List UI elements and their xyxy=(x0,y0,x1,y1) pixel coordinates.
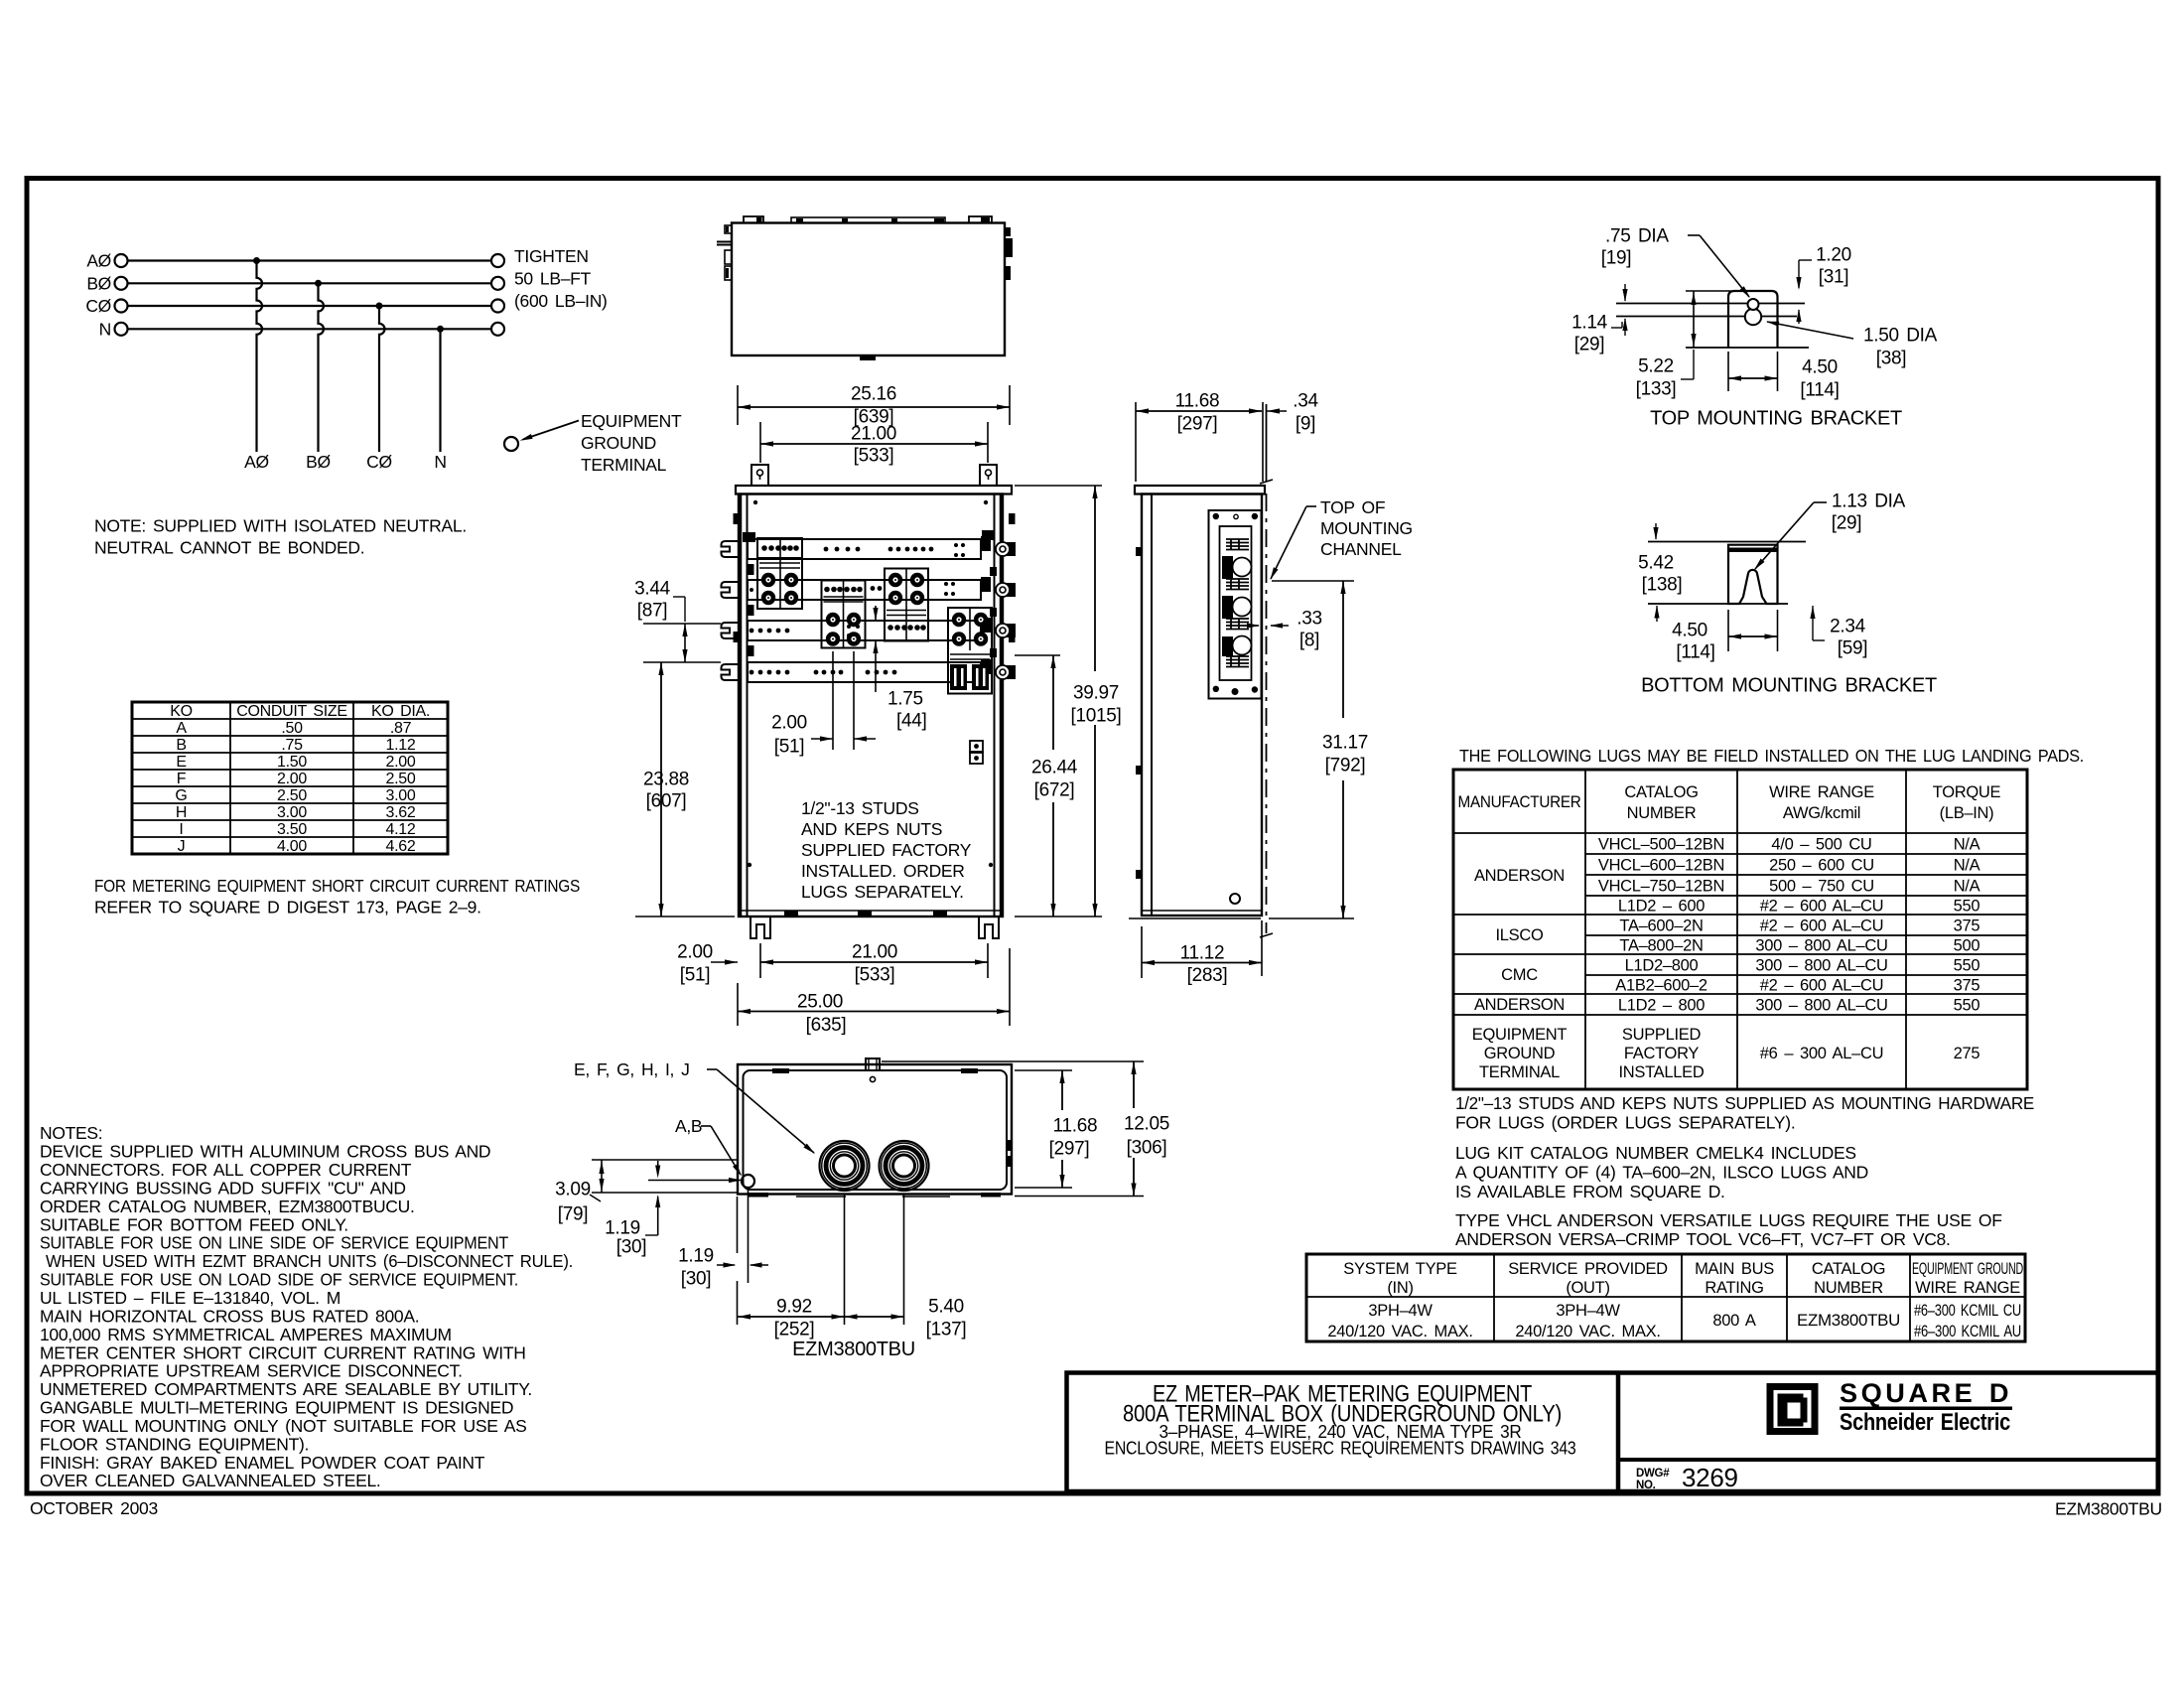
svg-text:ENCLOSURE, MEETS EUSERC REQUIR: ENCLOSURE, MEETS EUSERC REQUIREMENTS DRA… xyxy=(1105,1438,1576,1458)
svg-text:GROUND: GROUND xyxy=(581,433,656,453)
svg-text:IS AVAILABLE FROM SQUARE D.: IS AVAILABLE FROM SQUARE D. xyxy=(1455,1182,1725,1201)
svg-text:N/A: N/A xyxy=(1954,835,1980,853)
dimension 25.16 [639] top width xyxy=(738,384,1010,428)
svg-text:[30]: [30] xyxy=(681,1269,712,1290)
foot left (front view) xyxy=(751,917,770,938)
dimension 5.40 [137] xyxy=(845,1195,967,1340)
dimension 1.19 [30] horizontal xyxy=(678,1189,768,1290)
bracket slot lines xyxy=(1616,304,1809,349)
svg-text:[635]: [635] xyxy=(806,1015,847,1036)
svg-text:(600 LB–IN): (600 LB–IN) xyxy=(514,291,608,311)
svg-text:NEUTRAL CANNOT BE BONDED.: NEUTRAL CANNOT BE BONDED. xyxy=(94,538,364,558)
dimension .75 DIA [19] xyxy=(1601,226,1750,298)
wire C-phase horizontal xyxy=(128,305,492,307)
top view of enclosure xyxy=(717,216,1013,360)
svg-text:[79]: [79] xyxy=(558,1204,589,1225)
svg-text:[283]: [283] xyxy=(1187,965,1228,986)
bottom view enclosure xyxy=(738,1058,1013,1198)
svg-text:NOTES:: NOTES: xyxy=(40,1123,102,1143)
svg-text:300 – 800 AL–CU: 300 – 800 AL–CU xyxy=(1755,996,1887,1014)
svg-text:3.50: 3.50 xyxy=(277,821,307,838)
svg-text:100,000 RMS SYMMETRICAL AMPERE: 100,000 RMS SYMMETRICAL AMPERES MAXIMUM xyxy=(40,1325,452,1344)
bracket reference lines bottom xyxy=(1648,542,1806,605)
svg-text:4.50: 4.50 xyxy=(1672,621,1707,641)
svg-text:11.68: 11.68 xyxy=(1175,391,1220,412)
svg-text:NO.: NO. xyxy=(1636,1480,1656,1491)
svg-text:1.19: 1.19 xyxy=(605,1218,640,1239)
svg-text:WIRE RANGE: WIRE RANGE xyxy=(1769,783,1874,801)
svg-text:ILSCO: ILSCO xyxy=(1495,926,1543,944)
note short circuit ratings xyxy=(94,876,580,917)
dimension 1.14 [29] xyxy=(1571,284,1627,355)
svg-text:NUMBER: NUMBER xyxy=(1814,1279,1883,1297)
svg-text:[87]: [87] xyxy=(637,601,668,622)
svg-text:N: N xyxy=(99,320,111,340)
lug landing pad block top-left xyxy=(757,538,802,609)
svg-text:375: 375 xyxy=(1954,917,1980,934)
dimension .33 [8] xyxy=(1243,609,1322,651)
svg-text:300 – 800 AL–CU: 300 – 800 AL–CU xyxy=(1755,936,1887,954)
svg-text:SYSTEM TYPE: SYSTEM TYPE xyxy=(1343,1260,1457,1278)
svg-text:12.05: 12.05 xyxy=(1124,1114,1169,1135)
svg-text:240/120 VAC. MAX.: 240/120 VAC. MAX. xyxy=(1327,1323,1472,1340)
dimension 39.97 [1015] overall height xyxy=(1015,486,1122,917)
svg-text:(OUT): (OUT) xyxy=(1566,1279,1609,1297)
mounting channel line (side view) xyxy=(1260,404,1273,937)
svg-text:[252]: [252] xyxy=(774,1320,815,1340)
svg-text:CØ: CØ xyxy=(366,452,392,472)
svg-text:TORQUE: TORQUE xyxy=(1933,783,2001,801)
dimension 3.09 [79] xyxy=(555,1160,742,1225)
svg-text:5.42: 5.42 xyxy=(1638,553,1674,574)
svg-text:1.50: 1.50 xyxy=(277,754,307,771)
svg-text:3.09: 3.09 xyxy=(555,1180,591,1200)
svg-text:21.00: 21.00 xyxy=(852,942,897,963)
svg-text:FLOOR STANDING EQUIPMENT).: FLOOR STANDING EQUIPMENT). xyxy=(40,1434,309,1454)
wire N drop xyxy=(439,329,441,452)
svg-text:MOUNTING: MOUNTING xyxy=(1320,518,1413,538)
KO conduit size table xyxy=(132,702,448,855)
svg-text:L1D2 – 600: L1D2 – 600 xyxy=(1618,897,1705,915)
dimension 5.42 [138] xyxy=(1638,523,1682,622)
svg-text:[792]: [792] xyxy=(1325,756,1366,776)
svg-text:11.12: 11.12 xyxy=(1180,943,1225,964)
svg-text:TOP OF: TOP OF xyxy=(1320,497,1385,517)
lug landing pad block middle xyxy=(822,581,866,648)
dimension 9.92 [252] xyxy=(738,1195,845,1340)
dimension 11.12 [283] xyxy=(1129,918,1262,986)
svg-text:REFER TO SQUARE D DIGEST 173,: REFER TO SQUARE D DIGEST 173, PAGE 2–9. xyxy=(94,898,481,917)
svg-text:I: I xyxy=(179,821,183,838)
svg-text:CONNECTORS. FOR ALL COPPER CUR: CONNECTORS. FOR ALL COPPER CURRENT xyxy=(40,1160,412,1180)
svg-text:.87: .87 xyxy=(390,720,412,737)
svg-text:ANDERSON: ANDERSON xyxy=(1474,996,1565,1014)
svg-text:KO DIA.: KO DIA. xyxy=(371,703,430,720)
svg-text:FINISH: GRAY BAKED ENAMEL POWD: FINISH: GRAY BAKED ENAMEL POWDER COAT PA… xyxy=(40,1453,485,1473)
svg-text:[306]: [306] xyxy=(1127,1138,1167,1159)
dimension 12.05 [306] bottom view xyxy=(882,1061,1169,1197)
svg-text:A QUANTITY OF (4) TA–600–2N, I: A QUANTITY OF (4) TA–600–2N, ILSCO LUGS … xyxy=(1455,1163,1868,1183)
svg-text:SUPPLIED: SUPPLIED xyxy=(1622,1026,1702,1044)
knockout A,B (bottom view) xyxy=(742,1175,754,1188)
junction A xyxy=(253,257,260,264)
svg-text:[297]: [297] xyxy=(1049,1139,1090,1160)
meter socket panel (side view) xyxy=(1209,510,1262,699)
svg-text:3269: 3269 xyxy=(1682,1463,1738,1492)
svg-text:TERMINAL: TERMINAL xyxy=(581,455,667,475)
svg-text:L1D2–800: L1D2–800 xyxy=(1625,956,1699,974)
notes block xyxy=(40,1123,573,1490)
svg-text:INSTALLED: INSTALLED xyxy=(1619,1063,1705,1081)
dimension 3.44 [87] row spacing xyxy=(634,579,721,662)
svg-text:375: 375 xyxy=(1954,976,1980,994)
svg-text:3.44: 3.44 xyxy=(634,579,671,600)
dimension 11.68 [297] bottom view xyxy=(1015,1070,1097,1188)
svg-text:[607]: [607] xyxy=(646,791,687,812)
svg-text:800 A: 800 A xyxy=(1712,1312,1756,1330)
svg-text:TIGHTEN: TIGHTEN xyxy=(514,246,589,266)
svg-text:240/120 VAC. MAX.: 240/120 VAC. MAX. xyxy=(1515,1323,1660,1340)
svg-text:VHCL–500–12BN: VHCL–500–12BN xyxy=(1598,835,1724,853)
svg-text:1/2"-13 STUDS: 1/2"-13 STUDS xyxy=(801,798,919,818)
drawing number xyxy=(1636,1463,1738,1492)
svg-text:DWG#: DWG# xyxy=(1636,1468,1670,1480)
svg-text:[19]: [19] xyxy=(1601,248,1632,269)
svg-text:LUGS SEPARATELY.: LUGS SEPARATELY. xyxy=(801,882,964,902)
svg-text:2.00: 2.00 xyxy=(386,754,416,771)
svg-text:FOR LUGS (ORDER LUGS SEPARATEL: FOR LUGS (ORDER LUGS SEPARATELY). xyxy=(1455,1113,1795,1133)
svg-text:25.00: 25.00 xyxy=(797,992,843,1013)
svg-text:EZM3800TBU: EZM3800TBU xyxy=(792,1339,915,1360)
label E,F,G,H,I,J xyxy=(574,1059,815,1154)
svg-text:1.50 DIA: 1.50 DIA xyxy=(1863,326,1938,347)
terminal B-phase left xyxy=(115,277,128,290)
top mounting bracket left (front view) xyxy=(751,465,768,486)
svg-text:SUPPLIED FACTORY: SUPPLIED FACTORY xyxy=(801,840,972,860)
svg-text:[533]: [533] xyxy=(854,446,894,467)
knockout group E-J left (bottom view) xyxy=(820,1141,870,1191)
system rating table xyxy=(1306,1254,2025,1341)
svg-text:F: F xyxy=(177,771,187,787)
svg-text:A1B2–600–2: A1B2–600–2 xyxy=(1615,976,1707,994)
svg-text:THE FOLLOWING LUGS MAY BE FIEL: THE FOLLOWING LUGS MAY BE FIELD INSTALLE… xyxy=(1459,746,2084,766)
svg-text:#6–300 KCMIL CU: #6–300 KCMIL CU xyxy=(1914,1302,2021,1320)
svg-text:BØ: BØ xyxy=(86,274,111,294)
svg-text:39.97: 39.97 xyxy=(1073,683,1119,704)
svg-text:EZM3800TBU: EZM3800TBU xyxy=(1797,1312,1900,1330)
svg-text:4.62: 4.62 xyxy=(386,838,416,855)
terminal C-phase right xyxy=(491,300,504,313)
svg-text:WIRE RANGE: WIRE RANGE xyxy=(1915,1279,2020,1297)
svg-text:N: N xyxy=(434,452,446,472)
svg-text:1.14: 1.14 xyxy=(1571,313,1608,334)
studs note (front view) xyxy=(801,798,972,902)
svg-text:.75: .75 xyxy=(281,737,303,754)
svg-text:NOTE: SUPPLIED WITH ISOLATED N: NOTE: SUPPLIED WITH ISOLATED NEUTRAL. xyxy=(94,516,467,536)
dimension 1.19 [30] vertical xyxy=(605,1161,660,1258)
wire A-phase horizontal xyxy=(128,259,492,261)
svg-text:[137]: [137] xyxy=(926,1320,967,1340)
Square D wordmark xyxy=(1840,1378,2012,1436)
terminal N left xyxy=(115,323,128,336)
wire B-phase drop xyxy=(319,283,325,452)
dimension .34 [9] channel offset xyxy=(1267,391,1318,435)
top mounting bracket right (front view) xyxy=(980,465,997,486)
border frame xyxy=(27,179,2158,1494)
svg-text:2.00: 2.00 xyxy=(771,713,807,734)
svg-text:N/A: N/A xyxy=(1954,877,1980,895)
svg-text:[51]: [51] xyxy=(680,965,711,986)
note lug kit CMELK4 xyxy=(1455,1143,1868,1201)
svg-text:VHCL–600–12BN: VHCL–600–12BN xyxy=(1598,856,1724,874)
equipment ground terminal xyxy=(504,411,682,475)
svg-text:DEVICE SUPPLIED WITH ALUMINUM: DEVICE SUPPLIED WITH ALUMINUM CROSS BUS … xyxy=(40,1142,490,1162)
svg-text:1/2"–13 STUDS AND KEPS NUTS SU: 1/2"–13 STUDS AND KEPS NUTS SUPPLIED AS … xyxy=(1455,1093,2034,1113)
dimension 2.34 [59] xyxy=(1810,606,1867,659)
svg-text:.34: .34 xyxy=(1293,391,1318,412)
svg-text:EQUIPMENT GROUND: EQUIPMENT GROUND xyxy=(1912,1260,2023,1278)
svg-text:AWG/kcmil: AWG/kcmil xyxy=(1783,804,1860,822)
stud dots on bus rows xyxy=(750,543,965,674)
ground lug small (front view right wall) xyxy=(970,741,983,764)
svg-text:TOP MOUNTING BRACKET: TOP MOUNTING BRACKET xyxy=(1650,408,1902,430)
svg-text:[114]: [114] xyxy=(1676,642,1714,663)
svg-text:21.00: 21.00 xyxy=(851,424,896,445)
svg-text:MAIN BUS: MAIN BUS xyxy=(1695,1260,1774,1278)
svg-text:GROUND: GROUND xyxy=(1484,1045,1556,1062)
svg-text:50 LB–FT: 50 LB–FT xyxy=(514,269,592,289)
terminal B-phase right xyxy=(491,277,504,290)
svg-text:ORDER CATALOG NUMBER, EZM3800T: ORDER CATALOG NUMBER, EZM3800TBUCU. xyxy=(40,1197,415,1216)
svg-text:2.50: 2.50 xyxy=(277,787,307,804)
svg-text:[44]: [44] xyxy=(896,711,927,732)
svg-text:4.12: 4.12 xyxy=(386,821,416,838)
dimension 25.00 [635] bottom xyxy=(738,948,1010,1036)
svg-text:#2 – 600 AL–CU: #2 – 600 AL–CU xyxy=(1760,897,1883,915)
svg-text:.75 DIA: .75 DIA xyxy=(1605,226,1669,247)
svg-text:CATALOG: CATALOG xyxy=(1624,783,1698,801)
svg-text:3PH–4W: 3PH–4W xyxy=(1368,1302,1433,1320)
svg-text:[297]: [297] xyxy=(1177,414,1218,435)
svg-text:A,B: A,B xyxy=(675,1116,702,1136)
lug table xyxy=(1453,770,2027,1089)
note studs mounting hardware xyxy=(1455,1093,2034,1133)
svg-text:SUITABLE FOR USE ON LOAD SIDE: SUITABLE FOR USE ON LOAD SIDE OF SERVICE… xyxy=(40,1270,518,1290)
svg-text:CHANNEL: CHANNEL xyxy=(1320,539,1402,559)
svg-text:SERVICE PROVIDED: SERVICE PROVIDED xyxy=(1508,1260,1668,1278)
svg-text:VHCL–750–12BN: VHCL–750–12BN xyxy=(1598,877,1724,895)
lug landing pad block right-middle xyxy=(885,569,928,641)
svg-text:UL LISTED – FILE E–131840, VOL: UL LISTED – FILE E–131840, VOL. M xyxy=(40,1288,341,1308)
svg-text:300 – 800 AL–CU: 300 – 800 AL–CU xyxy=(1755,956,1887,974)
label top of mounting channel xyxy=(1271,497,1413,580)
svg-text:[29]: [29] xyxy=(1832,513,1862,534)
svg-text:SUITABLE FOR USE ON LINE SIDE: SUITABLE FOR USE ON LINE SIDE OF SERVICE… xyxy=(40,1233,509,1253)
svg-text:INSTALLED. ORDER: INSTALLED. ORDER xyxy=(801,861,965,881)
dimension 4.50 [114] bottom bracket xyxy=(1672,610,1777,663)
svg-text:550: 550 xyxy=(1954,996,1980,1014)
svg-text:CATALOG: CATALOG xyxy=(1812,1260,1885,1278)
svg-text:1.12: 1.12 xyxy=(386,737,416,754)
svg-text:2.00: 2.00 xyxy=(677,942,713,963)
svg-text:1.20: 1.20 xyxy=(1816,245,1851,266)
svg-text:[8]: [8] xyxy=(1299,631,1319,651)
svg-text:L1D2 – 800: L1D2 – 800 xyxy=(1618,996,1705,1014)
svg-text:#2 – 600 AL–CU: #2 – 600 AL–CU xyxy=(1760,917,1883,934)
svg-text:BOTTOM MOUNTING BRACKET: BOTTOM MOUNTING BRACKET xyxy=(1641,675,1937,697)
dimension 1.13 DIA [29] xyxy=(1754,492,1906,570)
svg-text:5.40: 5.40 xyxy=(928,1297,964,1318)
lug landing pad block far-right xyxy=(948,608,992,694)
svg-text:METER CENTER SHORT CIRCUIT CUR: METER CENTER SHORT CIRCUIT CURRENT RATIN… xyxy=(40,1342,526,1362)
svg-text:B: B xyxy=(176,737,186,754)
svg-text:[38]: [38] xyxy=(1876,349,1907,369)
svg-text:4.50: 4.50 xyxy=(1802,357,1838,378)
svg-text:GANGABLE MULTI–METERING EQUIPM: GANGABLE MULTI–METERING EQUIPMENT IS DES… xyxy=(40,1398,513,1418)
svg-text:31.17: 31.17 xyxy=(1322,733,1368,754)
svg-text:TA–800–2N: TA–800–2N xyxy=(1619,936,1703,954)
wire N horizontal xyxy=(128,328,492,330)
svg-text:SQUARE D: SQUARE D xyxy=(1840,1378,2012,1408)
svg-text:EQUIPMENT: EQUIPMENT xyxy=(581,411,682,431)
svg-text:AØ: AØ xyxy=(244,452,269,472)
dimension 26.44 [672] xyxy=(1015,655,1078,917)
svg-text:E, F, G, H, I, J: E, F, G, H, I, J xyxy=(574,1059,690,1079)
top mounting bracket detail xyxy=(1728,291,1778,348)
svg-text:5.22: 5.22 xyxy=(1638,356,1674,377)
svg-text:[59]: [59] xyxy=(1838,638,1868,659)
svg-text:[9]: [9] xyxy=(1296,414,1315,435)
junction N xyxy=(437,326,444,333)
svg-text:ANDERSON: ANDERSON xyxy=(1474,867,1565,885)
dimension 11.68 [297] side width xyxy=(1136,391,1263,482)
svg-text:FOR WALL MOUNTING ONLY (NOT SU: FOR WALL MOUNTING ONLY (NOT SUITABLE FOR… xyxy=(40,1416,526,1436)
wire C-phase drop xyxy=(379,306,385,452)
svg-text:RATING: RATING xyxy=(1705,1279,1763,1297)
junction C xyxy=(376,303,383,310)
terminal A-phase left xyxy=(115,254,128,267)
svg-text:ANDERSON VERSA–CRIMP TOOL VC6–: ANDERSON VERSA–CRIMP TOOL VC6–FT, VC7–FT… xyxy=(1455,1229,1951,1249)
terminal A-phase right xyxy=(491,254,504,267)
svg-text:1.13 DIA: 1.13 DIA xyxy=(1832,492,1906,512)
svg-text:550: 550 xyxy=(1954,897,1980,915)
side view enclosure xyxy=(1135,486,1265,916)
svg-text:.50: .50 xyxy=(281,720,303,737)
svg-text:MANUFACTURER: MANUFACTURER xyxy=(1458,793,1581,811)
svg-text:275: 275 xyxy=(1954,1045,1980,1062)
svg-text:25.16: 25.16 xyxy=(851,384,896,405)
svg-text:G: G xyxy=(175,787,187,804)
dimension 1.75 [44] xyxy=(873,606,926,732)
svg-text:KO: KO xyxy=(170,703,193,720)
svg-text:LUG KIT CATALOG NUMBER CMELK4: LUG KIT CATALOG NUMBER CMELK4 INCLUDES xyxy=(1455,1143,1856,1163)
knockout group E-J right (bottom view) xyxy=(880,1141,929,1191)
svg-text:9.92: 9.92 xyxy=(776,1297,812,1318)
svg-text:EZM3800TBU: EZM3800TBU xyxy=(2055,1499,2162,1519)
note isolated neutral xyxy=(94,516,467,558)
svg-text:TA–600–2N: TA–600–2N xyxy=(1619,917,1703,934)
front view enclosure body xyxy=(736,486,1012,917)
dimension 1.20 [31] xyxy=(1796,245,1850,324)
foot right (front view) xyxy=(979,917,999,938)
svg-text:2.50: 2.50 xyxy=(386,771,416,787)
horizontal cross bus rows xyxy=(722,494,1017,917)
svg-text:500 – 750 CU: 500 – 750 CU xyxy=(1769,877,1874,895)
svg-text:J: J xyxy=(178,838,186,855)
dimension 2.00 [51] stud spacing xyxy=(771,651,876,758)
svg-text:1.19: 1.19 xyxy=(678,1246,714,1267)
svg-text:3PH–4W: 3PH–4W xyxy=(1556,1302,1620,1320)
dimension 21.00 [533] bracket spacing top xyxy=(760,422,988,467)
svg-text:[30]: [30] xyxy=(616,1237,647,1258)
svg-text:4.00: 4.00 xyxy=(277,838,307,855)
svg-text:H: H xyxy=(176,804,187,821)
svg-text:FACTORY: FACTORY xyxy=(1624,1045,1700,1062)
svg-text:FOR METERING EQUIPMENT SHORT C: FOR METERING EQUIPMENT SHORT CIRCUIT CUR… xyxy=(94,876,580,896)
svg-text:TYPE VHCL ANDERSON VERSATILE L: TYPE VHCL ANDERSON VERSATILE LUGS REQUIR… xyxy=(1455,1210,2002,1230)
bottom mounting bracket detail xyxy=(1728,545,1778,604)
wire B-phase horizontal xyxy=(128,282,492,284)
svg-text:23.88: 23.88 xyxy=(643,770,689,790)
svg-text:BØ: BØ xyxy=(306,452,331,472)
svg-text:4/0 – 500 CU: 4/0 – 500 CU xyxy=(1771,835,1871,853)
svg-text:[31]: [31] xyxy=(1819,267,1849,288)
svg-text:WHEN USED WITH EZMT BRANCH UNI: WHEN USED WITH EZMT BRANCH UNITS (6–DISC… xyxy=(46,1251,573,1271)
svg-text:CØ: CØ xyxy=(85,296,111,316)
svg-text:250 – 600 CU: 250 – 600 CU xyxy=(1769,856,1874,874)
svg-text:[1015]: [1015] xyxy=(1070,706,1121,727)
dimension 2.00 [51] bottom left xyxy=(677,942,738,986)
svg-text:E: E xyxy=(176,754,186,771)
svg-text:[114]: [114] xyxy=(1800,380,1839,401)
svg-text:NUMBER: NUMBER xyxy=(1627,804,1697,822)
svg-text:[138]: [138] xyxy=(1642,575,1683,596)
dimension 1.50 DIA [38] xyxy=(1766,322,1938,369)
svg-text:TERMINAL: TERMINAL xyxy=(1479,1063,1560,1081)
svg-text:2.34: 2.34 xyxy=(1830,617,1866,637)
svg-text:[133]: [133] xyxy=(1636,379,1677,400)
svg-text:EQUIPMENT: EQUIPMENT xyxy=(1472,1026,1568,1044)
dimension 21.00 [533] bottom xyxy=(760,942,988,986)
svg-text:2.00: 2.00 xyxy=(277,771,307,787)
svg-text:#6–300 KCMIL AU: #6–300 KCMIL AU xyxy=(1914,1323,2021,1340)
bracket keyhole xyxy=(1745,299,1761,325)
note VHCL versa-crimp xyxy=(1455,1210,2002,1249)
svg-text:#2 – 600 AL–CU: #2 – 600 AL–CU xyxy=(1760,976,1883,994)
dimension 23.88 [607] xyxy=(635,662,735,917)
dimension 4.50 [114] top bracket xyxy=(1728,352,1840,401)
svg-text:[533]: [533] xyxy=(855,965,895,986)
label A,B xyxy=(675,1116,742,1176)
svg-text:11.68: 11.68 xyxy=(1053,1116,1098,1137)
svg-text:N/A: N/A xyxy=(1954,856,1980,874)
svg-text:CMC: CMC xyxy=(1501,966,1538,984)
svg-text:3.00: 3.00 xyxy=(386,787,416,804)
svg-text:CARRYING BUSSING ADD SUFFIX "C: CARRYING BUSSING ADD SUFFIX "CU" AND xyxy=(40,1179,406,1199)
svg-text:MAIN HORIZONTAL CROSS BUS RATE: MAIN HORIZONTAL CROSS BUS RATED 800A. xyxy=(40,1306,419,1326)
svg-text:UNMETERED COMPARTMENTS ARE SEA: UNMETERED COMPARTMENTS ARE SEALABLE BY U… xyxy=(40,1379,532,1399)
svg-text:SUITABLE FOR BOTTOM FEED ONLY.: SUITABLE FOR BOTTOM FEED ONLY. xyxy=(40,1214,348,1234)
svg-text:550: 550 xyxy=(1954,956,1980,974)
terminal C-phase left xyxy=(115,300,128,313)
svg-text:OCTOBER 2003: OCTOBER 2003 xyxy=(30,1498,158,1518)
svg-text:1.75: 1.75 xyxy=(887,689,923,710)
junction B xyxy=(315,280,322,287)
svg-text:26.44: 26.44 xyxy=(1031,758,1078,778)
svg-text:A: A xyxy=(176,720,187,737)
svg-text:3.62: 3.62 xyxy=(386,804,416,821)
dimension 31.17 [792] xyxy=(1269,581,1368,918)
